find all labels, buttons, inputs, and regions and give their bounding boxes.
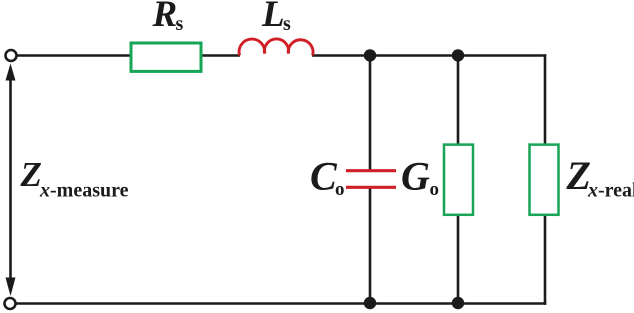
impedance Zx-real (green box) (530, 145, 559, 215)
junction dot: conductance bottom node (452, 297, 464, 309)
terminal: bottom-left open circle (5, 298, 16, 309)
junction dot: conductance top node (452, 49, 464, 61)
svg-text:s: s (283, 13, 291, 35)
svg-text:R: R (152, 0, 178, 35)
wire: bottom rail (11, 302, 546, 305)
svg-text:x: x (39, 180, 50, 202)
inductor Ls (three red arcs) (239, 39, 313, 55)
svg-text:G: G (401, 154, 430, 199)
terminal: top-left open circle (6, 50, 17, 61)
resistor Rs (green box) (131, 43, 201, 71)
wire: top rail between resistor and inductor (202, 54, 240, 57)
svg-text:Z: Z (20, 155, 42, 194)
capacitor Co plates (red) (346, 169, 396, 172)
wire: top rail from inductor to top-right corner (312, 54, 546, 57)
wire: capacitor branch lower segment (369, 188, 372, 304)
svg-text:x: x (587, 180, 598, 202)
wire: top rail from left terminal to resistor (15, 54, 130, 57)
junction dot: capacitor bottom node (364, 297, 376, 309)
svg-text:-real: -real (598, 180, 634, 202)
svg-text:C: C (310, 154, 338, 199)
wire: capacitor branch upper segment (369, 56, 372, 171)
svg-text:-measure: -measure (50, 180, 129, 202)
svg-text:o: o (335, 179, 345, 200)
conductance Go (green box) (444, 145, 473, 215)
svg-text:o: o (430, 179, 440, 200)
junction dot: capacitor top node (364, 49, 376, 61)
wire: right branch vertical (top corner down to Z rect) (544, 54, 547, 144)
measurement double arrow shaft (9, 76, 12, 283)
wire: right branch vertical (Z rect down to bottom corner) (544, 215, 547, 305)
arrowhead down (toward bottom terminal) (6, 278, 16, 297)
arrowhead up (toward top terminal) (6, 64, 16, 81)
wire: conductance branch upper segment (457, 56, 460, 145)
svg-text:L: L (261, 0, 285, 35)
svg-text:s: s (176, 13, 184, 35)
wire: conductance branch lower segment (457, 215, 460, 304)
